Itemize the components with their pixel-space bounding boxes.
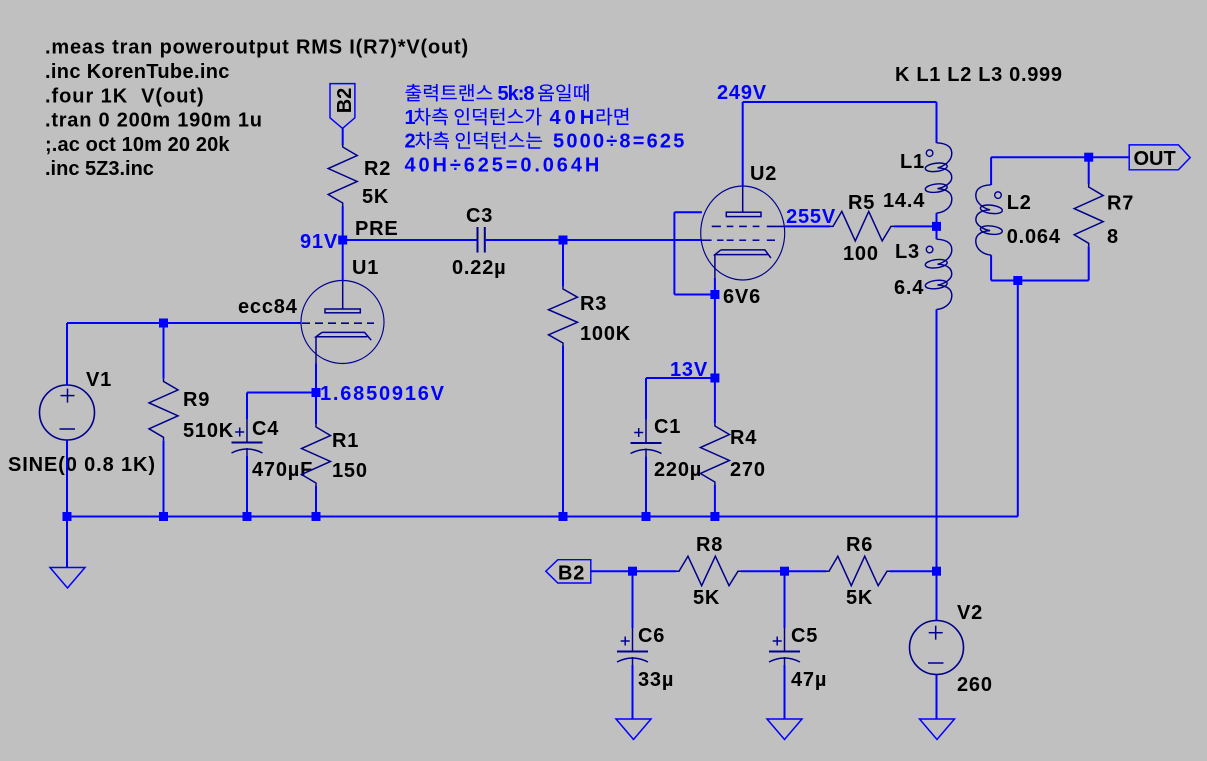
- tube U2 6V6 pentode: [701, 186, 785, 280]
- wire R4 top: [714, 378, 716, 423]
- svg-text:.meas tran poweroutput RMS I(R: .meas tran poweroutput RMS I(R7)*V(out): [45, 37, 469, 59]
- wire L2 top: [991, 156, 1089, 158]
- K coupling directive text: [895, 64, 1063, 86]
- value R5 100: [843, 243, 879, 265]
- junction node 1.685V: [312, 388, 321, 397]
- junction node L2 bottom: [1013, 276, 1022, 285]
- wire V1 top: [66, 323, 68, 385]
- wire V1 ground stub: [66, 517, 68, 568]
- wire C6 bottom: [632, 665, 634, 719]
- svg-text:R7: R7: [1107, 193, 1134, 215]
- label C1: [654, 416, 681, 438]
- label 1.6850916V: [320, 383, 446, 405]
- junction node V2: [932, 567, 941, 576]
- junction rail at V1: [63, 512, 72, 521]
- wire C1 top: [645, 378, 647, 420]
- resistor R3: [549, 286, 578, 346]
- value R9 510K: [183, 420, 234, 442]
- svg-text:220µ: 220µ: [654, 459, 702, 481]
- svg-text:C6: C6: [638, 625, 665, 647]
- wire B2 to C6 node: [591, 570, 632, 572]
- voltage source V1: [40, 385, 95, 440]
- svg-text:249V: 249V: [717, 82, 767, 104]
- ground symbol C5: [767, 719, 802, 740]
- svg-text:150: 150: [332, 460, 368, 482]
- svg-text:R6: R6: [846, 534, 873, 556]
- wire R3 top: [562, 240, 564, 286]
- wire V2 top: [936, 571, 938, 620]
- label 255V: [786, 206, 836, 228]
- wire R6 to V2 node: [890, 570, 937, 572]
- svg-text:0.064: 0.064: [1007, 226, 1061, 248]
- svg-text:U2: U2: [750, 163, 777, 185]
- wire U2 cathode down: [714, 278, 716, 378]
- wire C4 top horizontal: [247, 392, 316, 394]
- junction node C6: [628, 567, 637, 576]
- value R3 100K: [580, 323, 631, 345]
- svg-text:PRE: PRE: [355, 218, 399, 240]
- svg-text:C5: C5: [791, 625, 818, 647]
- svg-text:5K: 5K: [362, 186, 389, 208]
- value V2 260: [957, 674, 993, 696]
- svg-text:0.22µ: 0.22µ: [452, 257, 506, 279]
- junction node C5: [780, 567, 789, 576]
- label C6: [638, 625, 665, 647]
- wire L3 down to V2 node: [936, 310, 938, 572]
- wire R1 top: [315, 393, 317, 425]
- junction rail at R1: [312, 512, 321, 521]
- wire R2 to node 91V: [342, 206, 344, 240]
- svg-text:5k:8: 5k:8: [498, 83, 535, 105]
- wire B2 to R2: [342, 128, 344, 145]
- wire node to L3: [936, 226, 938, 239]
- label V1: [86, 369, 112, 391]
- wire U2 plate lead: [742, 102, 744, 187]
- junction node PRE-R3: [559, 236, 568, 245]
- wire L2 left top: [990, 157, 992, 185]
- directive text line 3: [45, 85, 205, 107]
- svg-text:SINE(0 0.8 1K): SINE(0 0.8 1K): [8, 454, 156, 476]
- inductor L2: [976, 185, 1003, 255]
- svg-text:.tran 0 200m 190m 1u: .tran 0 200m 190m 1u: [45, 110, 263, 132]
- svg-text:470µF: 470µF: [252, 459, 313, 481]
- svg-text:255V: 255V: [786, 206, 836, 228]
- tube U1 ecc84 triode: [301, 281, 384, 364]
- ground symbol C6: [616, 719, 651, 740]
- junction node L1-L3: [932, 222, 941, 231]
- svg-text:.four 1K V(out): .four 1K V(out): [45, 85, 205, 107]
- capacitor C5 (polarized): [769, 628, 800, 665]
- wire R5 to node: [894, 225, 937, 227]
- wire 249V down to L1: [936, 102, 938, 143]
- junction rail at C4: [243, 512, 252, 521]
- value C3 0.22u: [452, 257, 506, 279]
- svg-text:OUT: OUT: [1134, 148, 1176, 170]
- junction node OUT: [1084, 153, 1093, 162]
- label R1: [332, 430, 359, 452]
- label U1: [352, 257, 379, 279]
- capacitor C6 (polarized): [617, 628, 648, 665]
- junction rail at C1: [642, 512, 651, 521]
- flag B2 (bottom, pointing left): [546, 560, 591, 585]
- wire U2 screen to R5: [784, 225, 830, 227]
- svg-text:40H: 40H: [550, 107, 599, 129]
- wire R3 bottom: [562, 346, 564, 517]
- capacitor C1 (polarized): [631, 420, 662, 457]
- resistor R9: [149, 378, 178, 440]
- wire L2 bottom: [991, 280, 1089, 282]
- wire 13V horizontal: [646, 377, 715, 379]
- wire C5 node to R6: [784, 570, 826, 572]
- label L3: [895, 241, 920, 263]
- wire U2 suppressor loop: [674, 212, 715, 294]
- svg-text:47µ: 47µ: [791, 669, 827, 691]
- resistor R1: [302, 424, 331, 486]
- value R6 5K: [846, 587, 873, 609]
- voltage source V2: [910, 621, 964, 675]
- junction rail at R4: [710, 512, 719, 521]
- svg-text:14.4: 14.4: [883, 190, 925, 212]
- label R3: [580, 293, 607, 315]
- svg-text:U1: U1: [352, 257, 379, 279]
- label R8: [696, 534, 723, 556]
- svg-text:L2: L2: [1007, 192, 1032, 214]
- wire 249V horizontal: [743, 101, 937, 103]
- junction R9 top: [159, 319, 168, 328]
- svg-text:R5: R5: [848, 192, 875, 214]
- value C4 470uF: [252, 459, 313, 481]
- label R9: [183, 389, 210, 411]
- label L2: [1007, 192, 1032, 214]
- svg-text:R9: R9: [183, 389, 210, 411]
- directive text line 4: [45, 110, 263, 132]
- inductor L3: [925, 239, 952, 309]
- svg-text:B2: B2: [334, 88, 356, 114]
- wire C1 bottom: [645, 457, 647, 517]
- label V2: [957, 602, 983, 624]
- svg-text:R1: R1: [332, 430, 359, 452]
- resistor R7: [1074, 184, 1103, 246]
- svg-text:5000÷8=625: 5000÷8=625: [553, 131, 687, 153]
- directive text line 5: [45, 134, 230, 156]
- wire L2 left bottom: [990, 255, 992, 280]
- label 13V: [670, 359, 708, 381]
- svg-text:B2: B2: [558, 563, 585, 585]
- svg-text:R4: R4: [730, 427, 757, 449]
- value R4 270: [730, 459, 766, 481]
- value L3 6.4: [894, 277, 924, 299]
- net label 6V6: [723, 286, 761, 308]
- svg-text:1: 1: [405, 107, 416, 129]
- svg-text:ecc84: ecc84: [238, 296, 298, 318]
- comment text korean line 3: [405, 131, 687, 153]
- wire V2 bottom: [936, 675, 938, 720]
- svg-text:8: 8: [1107, 226, 1119, 248]
- resistor R4: [700, 423, 729, 485]
- value C1 220u: [654, 459, 702, 481]
- svg-text:;.ac oct 10m 20 20k: ;.ac oct 10m 20 20k: [45, 134, 230, 156]
- label L1: [900, 151, 925, 173]
- wire ground rail: [67, 516, 1018, 518]
- wire L1 to node: [936, 213, 938, 226]
- value L1 14.4: [883, 190, 925, 212]
- svg-text:6.4: 6.4: [894, 277, 924, 299]
- svg-text:V1: V1: [86, 369, 112, 391]
- label R2: [364, 158, 391, 180]
- svg-text:5K: 5K: [693, 587, 720, 609]
- directive text line 6: [45, 158, 154, 180]
- value L2 0.064: [1007, 226, 1061, 248]
- wire C6 node to R8: [632, 570, 676, 572]
- comment text korean line 2: [405, 107, 629, 129]
- label R6: [846, 534, 873, 556]
- svg-text:100K: 100K: [580, 323, 631, 345]
- wire R9 bottom: [163, 440, 165, 516]
- wire R8 to C5 node: [741, 570, 784, 572]
- label R5: [848, 192, 875, 214]
- svg-text:260: 260: [957, 674, 993, 696]
- wire C5 bottom: [784, 665, 786, 719]
- value R7 8: [1107, 226, 1119, 248]
- resistor R6: [826, 556, 890, 586]
- wire R7 bottom: [1088, 246, 1090, 280]
- directive text line 1: [45, 37, 469, 59]
- wire output return down: [1017, 281, 1019, 517]
- wire U1 plate to node 91V: [342, 240, 344, 281]
- wire node 91V to C3: [343, 239, 477, 241]
- label U2: [750, 163, 777, 185]
- svg-text:510K: 510K: [183, 420, 234, 442]
- wire C5 top: [784, 571, 786, 628]
- svg-text:6V6: 6V6: [723, 286, 761, 308]
- svg-text:V2: V2: [957, 602, 983, 624]
- svg-text:100: 100: [843, 243, 879, 265]
- wire node to U2 grid: [563, 239, 702, 241]
- capacitor C4 (polarized): [232, 419, 263, 456]
- svg-text:91V: 91V: [300, 231, 338, 253]
- flag OUT (pointing right): [1129, 145, 1190, 170]
- value C5 47u: [791, 669, 827, 691]
- junction node 13V: [710, 374, 719, 383]
- wire R9 top: [163, 323, 165, 378]
- junction rail at R3: [559, 512, 568, 521]
- ground symbol V2: [920, 719, 955, 740]
- flag B2 (top, pointing down): [330, 84, 356, 129]
- svg-text:R8: R8: [696, 534, 723, 556]
- inductor L1: [925, 143, 952, 213]
- svg-text:1.6850916V: 1.6850916V: [320, 383, 446, 405]
- wire U1 cathode down: [315, 364, 317, 393]
- label ecc84: [238, 296, 298, 318]
- comment text korean line 4: [405, 154, 603, 176]
- wire node OUT to flag: [1089, 156, 1130, 158]
- junction node 6V6: [710, 290, 719, 299]
- wire C4 top vertical: [246, 393, 248, 420]
- wire V1 to U1 grid rail: [67, 322, 302, 324]
- resistor R8: [676, 556, 741, 586]
- junction node 91V: [338, 236, 347, 245]
- value R2 5K: [362, 186, 389, 208]
- svg-text:R2: R2: [364, 158, 391, 180]
- value R1 150: [332, 460, 368, 482]
- svg-text:L1: L1: [900, 151, 925, 173]
- svg-text:2: 2: [405, 131, 416, 153]
- comment text korean line 1: [405, 83, 588, 105]
- svg-text:.inc 5Z3.inc: .inc 5Z3.inc: [45, 158, 154, 180]
- svg-text:40H÷625=0.064H: 40H÷625=0.064H: [405, 154, 603, 176]
- label 91V: [300, 231, 338, 253]
- label R7: [1107, 193, 1134, 215]
- label R4: [730, 427, 757, 449]
- value C6 33u: [638, 669, 674, 691]
- junction rail at R9: [159, 512, 168, 521]
- capacitor C3: [478, 227, 485, 253]
- directive text line 2: [45, 61, 230, 83]
- svg-text:C1: C1: [654, 416, 681, 438]
- value R8 5K: [693, 587, 720, 609]
- wire V1 bottom: [66, 440, 68, 517]
- svg-text:R3: R3: [580, 293, 607, 315]
- resistor R2: [328, 144, 357, 206]
- svg-text:C4: C4: [252, 418, 279, 440]
- svg-text:270: 270: [730, 459, 766, 481]
- svg-text:L3: L3: [895, 241, 920, 263]
- net label PRE: [355, 218, 399, 240]
- wire C6 top: [632, 571, 634, 628]
- wire R7 top: [1088, 157, 1090, 184]
- wire C3 to node PRE: [486, 239, 563, 241]
- ground symbol V1: [50, 568, 85, 589]
- svg-text:33µ: 33µ: [638, 669, 674, 691]
- value V1 SINE: [8, 454, 156, 476]
- wire C4 bottom: [246, 456, 248, 517]
- resistor R5: [830, 211, 894, 241]
- label C3: [466, 205, 493, 227]
- label 249V: [717, 82, 767, 104]
- label C5: [791, 625, 818, 647]
- svg-text:K L1 L2 L3 0.999: K L1 L2 L3 0.999: [895, 64, 1063, 86]
- wire R4 bottom: [714, 485, 716, 517]
- wire R1 bottom: [315, 486, 317, 517]
- svg-text:5K: 5K: [846, 587, 873, 609]
- svg-text:.inc KorenTube.inc: .inc KorenTube.inc: [45, 61, 230, 83]
- label C4: [252, 418, 279, 440]
- svg-text:C3: C3: [466, 205, 493, 227]
